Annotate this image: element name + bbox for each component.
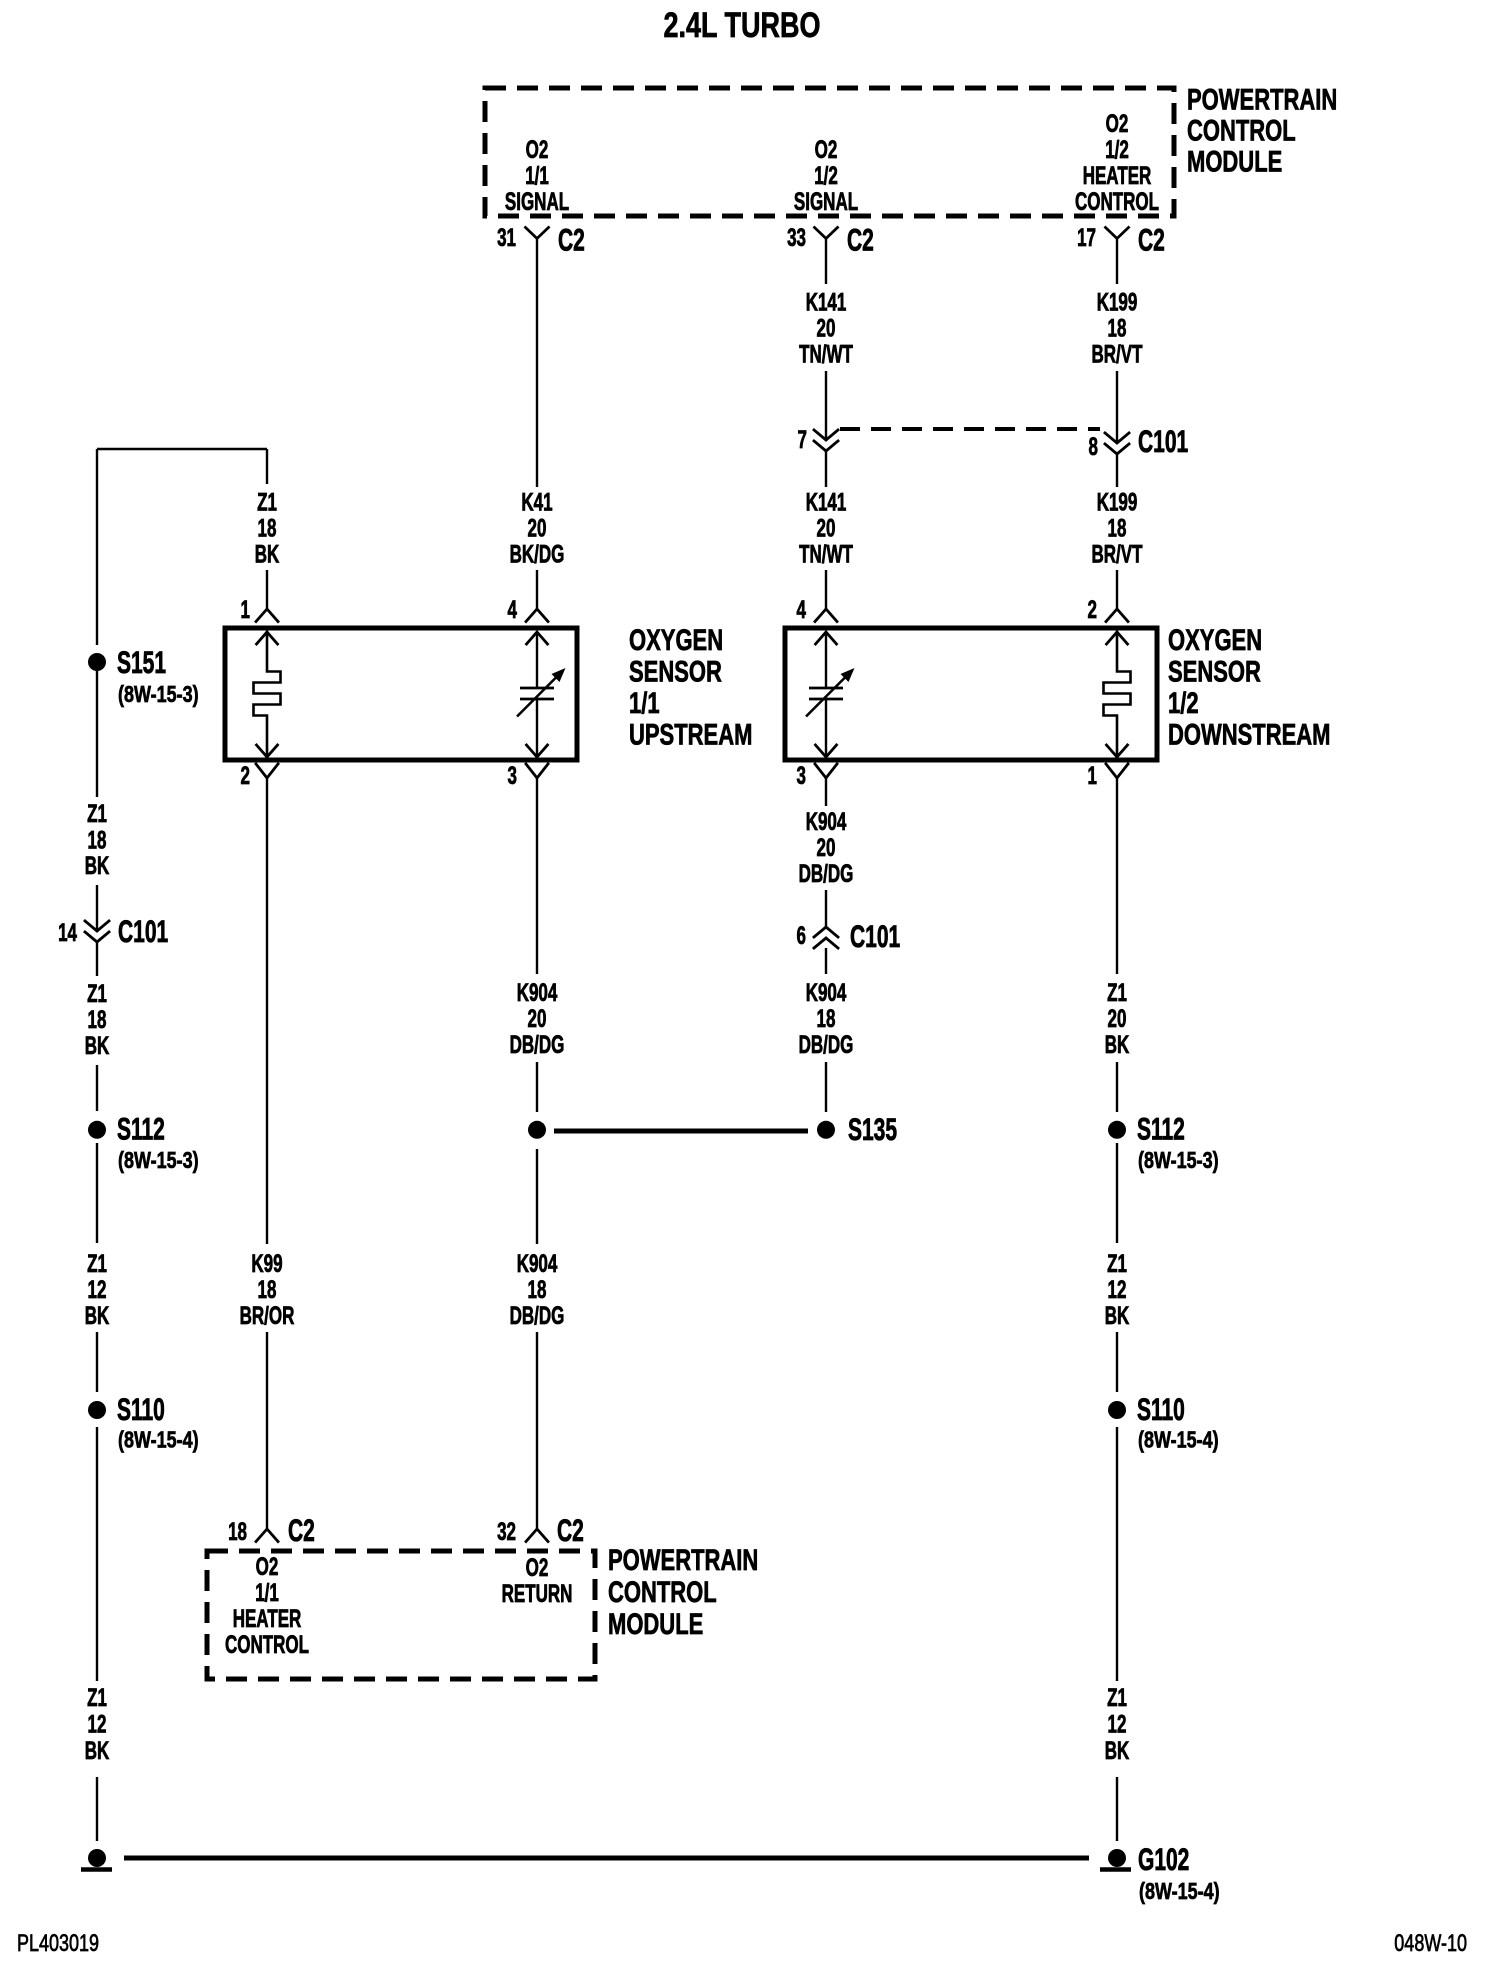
svg-text:RETURN: RETURN xyxy=(502,1581,573,1608)
connector C2 pin 31 xyxy=(526,228,549,239)
svg-text:Z1: Z1 xyxy=(87,1251,107,1278)
svg-text:1/1: 1/1 xyxy=(255,1580,279,1607)
wire K199 below C101 xyxy=(1116,454,1118,487)
wire label K141 20 TN/WT (upper) xyxy=(799,290,853,369)
svg-text:UPSTREAM: UPSTREAM xyxy=(629,717,752,751)
svg-text:BK: BK xyxy=(85,1738,110,1765)
svg-text:C2: C2 xyxy=(288,1513,315,1548)
wire label K904 20 DB/DG (col C) xyxy=(510,980,565,1059)
splice S110 (left) xyxy=(88,1401,106,1419)
svg-text:BK: BK xyxy=(255,542,280,569)
svg-text:12: 12 xyxy=(1108,1712,1127,1739)
svg-text:HEATER: HEATER xyxy=(233,1606,302,1633)
label C2 (pin 31) xyxy=(558,222,585,257)
svg-text:Z1: Z1 xyxy=(1107,980,1127,1007)
wire Z1 below C101 left xyxy=(96,942,98,976)
svg-text:1/1: 1/1 xyxy=(629,686,660,720)
pin 1 (sensor 1/2) xyxy=(1088,763,1098,790)
wire label K41 20 BK/DG xyxy=(510,490,565,569)
label C2 (pin 33) xyxy=(847,222,874,257)
wire label Z1 18 BK (left, above C101) xyxy=(85,801,110,880)
PCM bottom label POWERTRAIN CONTROL MODULE xyxy=(608,1543,758,1641)
wire K904 from pin 3 xyxy=(825,778,827,806)
wire K904 to S135 xyxy=(536,1062,538,1112)
svg-text:18: 18 xyxy=(528,1277,547,1304)
svg-text:S112: S112 xyxy=(1137,1111,1185,1146)
svg-text:12: 12 xyxy=(1108,1277,1127,1304)
powertrain control module (top) dashed box xyxy=(485,88,1174,216)
wire Z1 12 below S110 right xyxy=(1116,1427,1118,1681)
label S112 (right) xyxy=(1137,1111,1185,1146)
title 2.4L TURBO xyxy=(664,6,821,45)
svg-text:8: 8 xyxy=(1089,434,1099,461)
svg-text:C2: C2 xyxy=(558,222,585,257)
splice S110 (right) xyxy=(1108,1401,1126,1419)
wire Z1 below S151 xyxy=(96,671,98,797)
svg-text:POWERTRAIN: POWERTRAIN xyxy=(1187,82,1337,116)
wire Z1 12 below S112 right xyxy=(1116,1143,1118,1243)
label C2 (pin 18) xyxy=(288,1513,315,1548)
sensing element (sensor 1/1) xyxy=(517,632,566,757)
pin 6 xyxy=(797,923,806,950)
svg-text:DOWNSTREAM: DOWNSTREAM xyxy=(1168,717,1330,751)
svg-text:K141: K141 xyxy=(806,290,847,317)
wire S135 link xyxy=(554,1129,808,1134)
svg-text:(8W-15-4): (8W-15-4) xyxy=(1138,1427,1219,1453)
ground terminal (left) xyxy=(81,1849,112,1870)
wire label Z1 12 BK (left) xyxy=(85,1251,110,1330)
svg-text:C101: C101 xyxy=(1138,424,1188,459)
svg-text:G102: G102 xyxy=(1138,1842,1189,1877)
svg-text:(8W-15-3): (8W-15-3) xyxy=(1138,1148,1219,1174)
splice S135 xyxy=(817,1121,835,1139)
wire label K199 18 BR/VT (lower) xyxy=(1092,490,1143,569)
label S110 (left) xyxy=(117,1392,165,1427)
svg-text:2.4L TURBO: 2.4L TURBO xyxy=(664,6,821,45)
svg-text:K199: K199 xyxy=(1097,490,1138,517)
wire label Z1 12 BK (bottom right) xyxy=(1105,1685,1130,1765)
svg-text:SIGNAL: SIGNAL xyxy=(794,189,858,216)
ground G102 terminal xyxy=(1100,1849,1131,1870)
heater element (sensor 1/2) xyxy=(1104,632,1131,757)
svg-text:1/2: 1/2 xyxy=(1105,137,1129,164)
svg-text:MODULE: MODULE xyxy=(608,1607,703,1641)
svg-text:O2: O2 xyxy=(1106,111,1129,138)
svg-text:6: 6 xyxy=(797,923,806,950)
svg-text:1: 1 xyxy=(1088,763,1098,790)
splice junction (col C) xyxy=(528,1121,546,1139)
wire ground rail xyxy=(124,1856,1089,1861)
label S112 (left) xyxy=(117,1111,165,1146)
pin 4 (sensor 1/2) xyxy=(797,597,807,624)
label OXYGEN SENSOR 1/1 UPSTREAM xyxy=(629,623,752,752)
heater element (sensor 1/1) xyxy=(254,632,281,757)
svg-text:OXYGEN: OXYGEN xyxy=(1168,623,1262,657)
svg-text:HEATER: HEATER xyxy=(1083,163,1152,190)
svg-text:S110: S110 xyxy=(117,1392,165,1427)
footer PL403019 xyxy=(17,1929,99,1956)
svg-text:2: 2 xyxy=(241,763,250,790)
svg-text:C101: C101 xyxy=(118,914,168,949)
wire ground branch horizontal xyxy=(97,448,267,450)
svg-text:31: 31 xyxy=(497,225,516,252)
svg-text:4: 4 xyxy=(797,597,807,624)
label S135 xyxy=(848,1112,897,1147)
svg-text:SENSOR: SENSOR xyxy=(629,654,722,688)
wire Z1 12 below S112 left xyxy=(96,1143,98,1243)
svg-text:O2: O2 xyxy=(815,137,838,164)
wire K99 to PCM pin 18 xyxy=(266,1332,268,1529)
label S112 ref (8W-15-3) left xyxy=(118,1148,199,1174)
svg-text:1: 1 xyxy=(241,597,251,624)
pin 14 xyxy=(58,920,77,947)
wire Z1 12 to ground left xyxy=(96,1777,98,1841)
connector pin 4 (sensor 1/1) xyxy=(526,609,548,622)
wire K904 to C101 pin 6 xyxy=(825,890,827,927)
svg-text:O2: O2 xyxy=(526,137,549,164)
svg-text:(8W-15-3): (8W-15-3) xyxy=(118,1148,199,1174)
svg-text:S110: S110 xyxy=(1137,1392,1185,1427)
svg-text:K199: K199 xyxy=(1097,290,1138,317)
svg-text:Z1: Z1 xyxy=(1107,1251,1127,1278)
svg-text:S151: S151 xyxy=(117,645,166,680)
wire K904 to PCM pin 32 xyxy=(536,1332,538,1529)
svg-text:12: 12 xyxy=(88,1277,107,1304)
svg-text:K904: K904 xyxy=(806,980,847,1007)
label C101 (left) xyxy=(118,914,168,949)
label C2 (pin 32) xyxy=(557,1513,584,1548)
connector pin 2 (sensor 1/2) xyxy=(1106,609,1128,622)
wire label K141 20 TN/WT (lower) xyxy=(799,490,853,569)
svg-text:20: 20 xyxy=(817,316,836,343)
wire K904 signal return upper xyxy=(536,778,538,974)
connector C2 pin 17 xyxy=(1106,228,1129,239)
svg-text:Z1: Z1 xyxy=(1107,1685,1127,1712)
svg-text:DB/DG: DB/DG xyxy=(799,861,854,888)
pin 32 xyxy=(497,1519,516,1546)
label S110 (right) xyxy=(1137,1392,1185,1427)
pin label O2 1/1 SIGNAL xyxy=(505,137,569,216)
svg-text:18: 18 xyxy=(1108,316,1127,343)
pin 17 xyxy=(1077,225,1096,252)
svg-text:7: 7 xyxy=(798,427,807,454)
svg-text:18: 18 xyxy=(88,828,107,855)
svg-text:OXYGEN: OXYGEN xyxy=(629,623,723,657)
label C2 (pin 17) xyxy=(1138,222,1165,257)
connector C2 pin 32 xyxy=(526,1529,548,1542)
label G102 xyxy=(1138,1842,1189,1877)
svg-text:BR/VT: BR/VT xyxy=(1092,542,1143,569)
connector C2 pin 33 xyxy=(815,228,838,239)
svg-text:14: 14 xyxy=(58,920,77,947)
svg-text:4: 4 xyxy=(508,597,518,624)
pin 3 (sensor 1/1) xyxy=(508,763,517,790)
oxygen sensor 1/1 box xyxy=(225,628,577,760)
svg-text:C2: C2 xyxy=(1138,222,1165,257)
svg-text:TN/WT: TN/WT xyxy=(799,342,853,369)
wire label Z1 12 BK (right) xyxy=(1105,1251,1130,1330)
wire Z1 20 from pin 1 xyxy=(1116,778,1118,974)
pin label O2 RETURN xyxy=(502,1555,573,1608)
wire Z1 upper right leg xyxy=(266,449,268,484)
connector pin 4 (sensor 1/2) xyxy=(815,609,837,622)
pin label O2 1/2 HEATER CONTROL xyxy=(1075,111,1159,216)
wire label K99 18 BR/OR xyxy=(240,1251,295,1330)
svg-text:SIGNAL: SIGNAL xyxy=(505,189,569,216)
svg-text:BK: BK xyxy=(1105,1738,1130,1765)
svg-text:CONTROL: CONTROL xyxy=(1075,189,1159,216)
svg-text:BR/OR: BR/OR xyxy=(240,1303,295,1330)
label OXYGEN SENSOR 1/2 DOWNSTREAM xyxy=(1168,623,1330,752)
svg-text:(8W-15-4): (8W-15-4) xyxy=(118,1427,199,1453)
svg-text:K904: K904 xyxy=(806,809,847,836)
connector C101 pin 8 xyxy=(1105,433,1129,454)
svg-text:18: 18 xyxy=(228,1519,247,1546)
wire label Z1 12 BK (bottom left) xyxy=(85,1685,110,1765)
wire K141 upper xyxy=(825,239,827,285)
wire Z1 12 to S110 left xyxy=(96,1332,98,1392)
svg-text:DB/DG: DB/DG xyxy=(510,1303,565,1330)
svg-text:32: 32 xyxy=(497,1519,516,1546)
svg-text:20: 20 xyxy=(528,1006,547,1033)
splice S112 (right) xyxy=(1108,1121,1126,1139)
label C101 (top) xyxy=(1138,424,1188,459)
svg-text:O2: O2 xyxy=(526,1555,549,1582)
svg-text:MODULE: MODULE xyxy=(1187,144,1282,178)
label S110 ref (8W-15-4) left xyxy=(118,1427,199,1453)
wire Z1 12 to S110 right xyxy=(1116,1332,1118,1392)
pin 2 (sensor 1/1) xyxy=(241,763,250,790)
svg-text:3: 3 xyxy=(797,763,806,790)
svg-text:17: 17 xyxy=(1077,225,1096,252)
wire K904 below C101 xyxy=(825,948,827,974)
svg-text:CONTROL: CONTROL xyxy=(608,1575,717,1609)
pin 33 xyxy=(787,225,806,252)
svg-text:Z1: Z1 xyxy=(257,490,277,517)
label G102 ref (8W-15-4) xyxy=(1139,1879,1220,1905)
svg-text:Z1: Z1 xyxy=(87,981,107,1008)
svg-text:BK/DG: BK/DG xyxy=(510,542,565,569)
svg-text:Z1: Z1 xyxy=(87,1685,107,1712)
wire label K904 20 DB/DG (col D) xyxy=(799,809,854,888)
svg-text:2: 2 xyxy=(1088,597,1097,624)
svg-text:BK: BK xyxy=(85,1033,110,1060)
pin 3 (sensor 1/2) xyxy=(797,763,806,790)
connector pin 3 (sensor 1/1) xyxy=(526,764,548,778)
PCM top label POWERTRAIN CONTROL MODULE xyxy=(1187,82,1337,178)
wire K199 upper xyxy=(1116,239,1118,285)
svg-text:S135: S135 xyxy=(848,1112,897,1147)
wire O2 1/1 signal upper xyxy=(536,239,538,488)
svg-text:12: 12 xyxy=(88,1712,107,1739)
label S151 xyxy=(117,645,166,680)
connector pin 1 (sensor 1/1) xyxy=(256,609,278,622)
wire K199 to C101 xyxy=(1116,371,1118,443)
svg-text:1/1: 1/1 xyxy=(525,163,549,190)
svg-text:20: 20 xyxy=(817,835,836,862)
svg-text:BK: BK xyxy=(1105,1303,1130,1330)
footer 048W-10 xyxy=(1394,1929,1467,1956)
wire Z1 to C101 pin 14 xyxy=(96,885,98,931)
pin label O2 1/2 SIGNAL xyxy=(794,137,858,216)
wire ground branch left leg xyxy=(96,449,98,645)
label S112 ref (8W-15-3) right xyxy=(1138,1148,1219,1174)
svg-text:18: 18 xyxy=(258,516,277,543)
connector pin 1 (sensor 1/2) xyxy=(1106,764,1128,778)
svg-text:C2: C2 xyxy=(847,222,874,257)
svg-text:S112: S112 xyxy=(117,1111,165,1146)
wire label K904 18 DB/DG (col D) xyxy=(799,980,854,1059)
svg-text:DB/DG: DB/DG xyxy=(510,1032,565,1059)
wire K904 to splice S135 xyxy=(825,1062,827,1112)
svg-text:18: 18 xyxy=(817,1006,836,1033)
powertrain control module (bottom) dashed box xyxy=(207,1551,595,1679)
wire Z1 to S112 left xyxy=(96,1065,98,1111)
wire Z1 to pin 1 xyxy=(266,570,268,609)
wire K199 to sensor xyxy=(1116,570,1118,609)
wire label Z1 18 BK (left, below C101) xyxy=(85,981,110,1060)
svg-text:SENSOR: SENSOR xyxy=(1168,654,1261,688)
wire C101 dashed link xyxy=(840,427,1100,431)
svg-text:1/2: 1/2 xyxy=(814,163,838,190)
wire label Z1 20 BK xyxy=(1105,980,1130,1059)
svg-text:33: 33 xyxy=(787,225,806,252)
svg-text:POWERTRAIN: POWERTRAIN xyxy=(608,1543,758,1577)
wire K141 to C101 xyxy=(825,371,827,440)
pin 7 xyxy=(798,427,807,454)
svg-text:K904: K904 xyxy=(517,1251,558,1278)
svg-text:TN/WT: TN/WT xyxy=(799,542,853,569)
pin 2 (sensor 1/2) xyxy=(1088,597,1097,624)
wire K141 below C101 xyxy=(825,451,827,487)
svg-text:BK: BK xyxy=(85,1303,110,1330)
splice S112 (left) xyxy=(88,1121,106,1139)
svg-text:(8W-15-3): (8W-15-3) xyxy=(118,682,199,708)
connector pin 3 (sensor 1/2) xyxy=(815,764,837,778)
pin 1 xyxy=(241,597,251,624)
connector C2 pin 18 xyxy=(256,1529,278,1542)
svg-text:C2: C2 xyxy=(557,1513,584,1548)
pin 31 xyxy=(497,225,516,252)
splice S151 xyxy=(88,653,106,671)
sensing element (sensor 1/2) xyxy=(806,632,855,757)
svg-text:CONTROL: CONTROL xyxy=(225,1632,309,1659)
svg-text:BK: BK xyxy=(1105,1032,1130,1059)
wire Z1 to S112 right xyxy=(1116,1062,1118,1112)
wire label K904 18 DB/DG (col C) xyxy=(510,1251,565,1330)
connector C101 pin 6 xyxy=(814,927,838,948)
svg-text:PL403019: PL403019 xyxy=(17,1929,99,1956)
svg-text:20: 20 xyxy=(528,516,547,543)
svg-text:20: 20 xyxy=(817,516,836,543)
svg-text:Z1: Z1 xyxy=(87,801,107,828)
connector pin 2 (sensor 1/1) xyxy=(256,764,278,778)
svg-text:K141: K141 xyxy=(806,490,847,517)
svg-text:K99: K99 xyxy=(251,1251,282,1278)
svg-text:048W-10: 048W-10 xyxy=(1394,1929,1467,1956)
pin 18 xyxy=(228,1519,247,1546)
oxygen sensor 1/2 box xyxy=(785,628,1157,760)
svg-text:C101: C101 xyxy=(850,919,900,954)
svg-text:18: 18 xyxy=(1108,516,1127,543)
svg-text:18: 18 xyxy=(258,1277,277,1304)
connector C101 pin 14 xyxy=(85,921,109,942)
label S151 ref (8W-15-3) xyxy=(118,682,199,708)
svg-text:18: 18 xyxy=(88,1007,107,1034)
pin 8 xyxy=(1089,434,1099,461)
wire K904 below junction xyxy=(536,1149,538,1244)
svg-text:(8W-15-4): (8W-15-4) xyxy=(1139,1879,1220,1905)
label C101 (pin 6) xyxy=(850,919,900,954)
svg-text:CONTROL: CONTROL xyxy=(1187,113,1296,147)
wire K99 heater control xyxy=(266,778,268,1244)
svg-text:3: 3 xyxy=(508,763,517,790)
label S110 ref (8W-15-4) right xyxy=(1138,1427,1219,1453)
wire Z1 12 below S110 left xyxy=(96,1427,98,1681)
pin label O2 1/1 HEATER CONTROL xyxy=(225,1554,309,1659)
svg-text:BR/VT: BR/VT xyxy=(1092,342,1143,369)
wire K141 to sensor xyxy=(825,570,827,609)
svg-text:1/2: 1/2 xyxy=(1168,686,1199,720)
pin 4 (sensor 1/1) xyxy=(508,597,518,624)
svg-text:O2: O2 xyxy=(256,1554,279,1581)
svg-text:K904: K904 xyxy=(517,980,558,1007)
wire label K199 18 BR/VT (upper) xyxy=(1092,290,1143,369)
wire O2 1/1 signal lower xyxy=(536,570,538,609)
svg-text:DB/DG: DB/DG xyxy=(799,1032,854,1059)
svg-text:20: 20 xyxy=(1108,1006,1127,1033)
wire Z1 12 to ground right xyxy=(1116,1777,1118,1841)
connector C101 pin 7 xyxy=(814,430,838,451)
wire label Z1 18 BK (pin1 leg) xyxy=(255,490,280,569)
svg-text:BK: BK xyxy=(85,853,110,880)
svg-text:K41: K41 xyxy=(521,490,552,517)
